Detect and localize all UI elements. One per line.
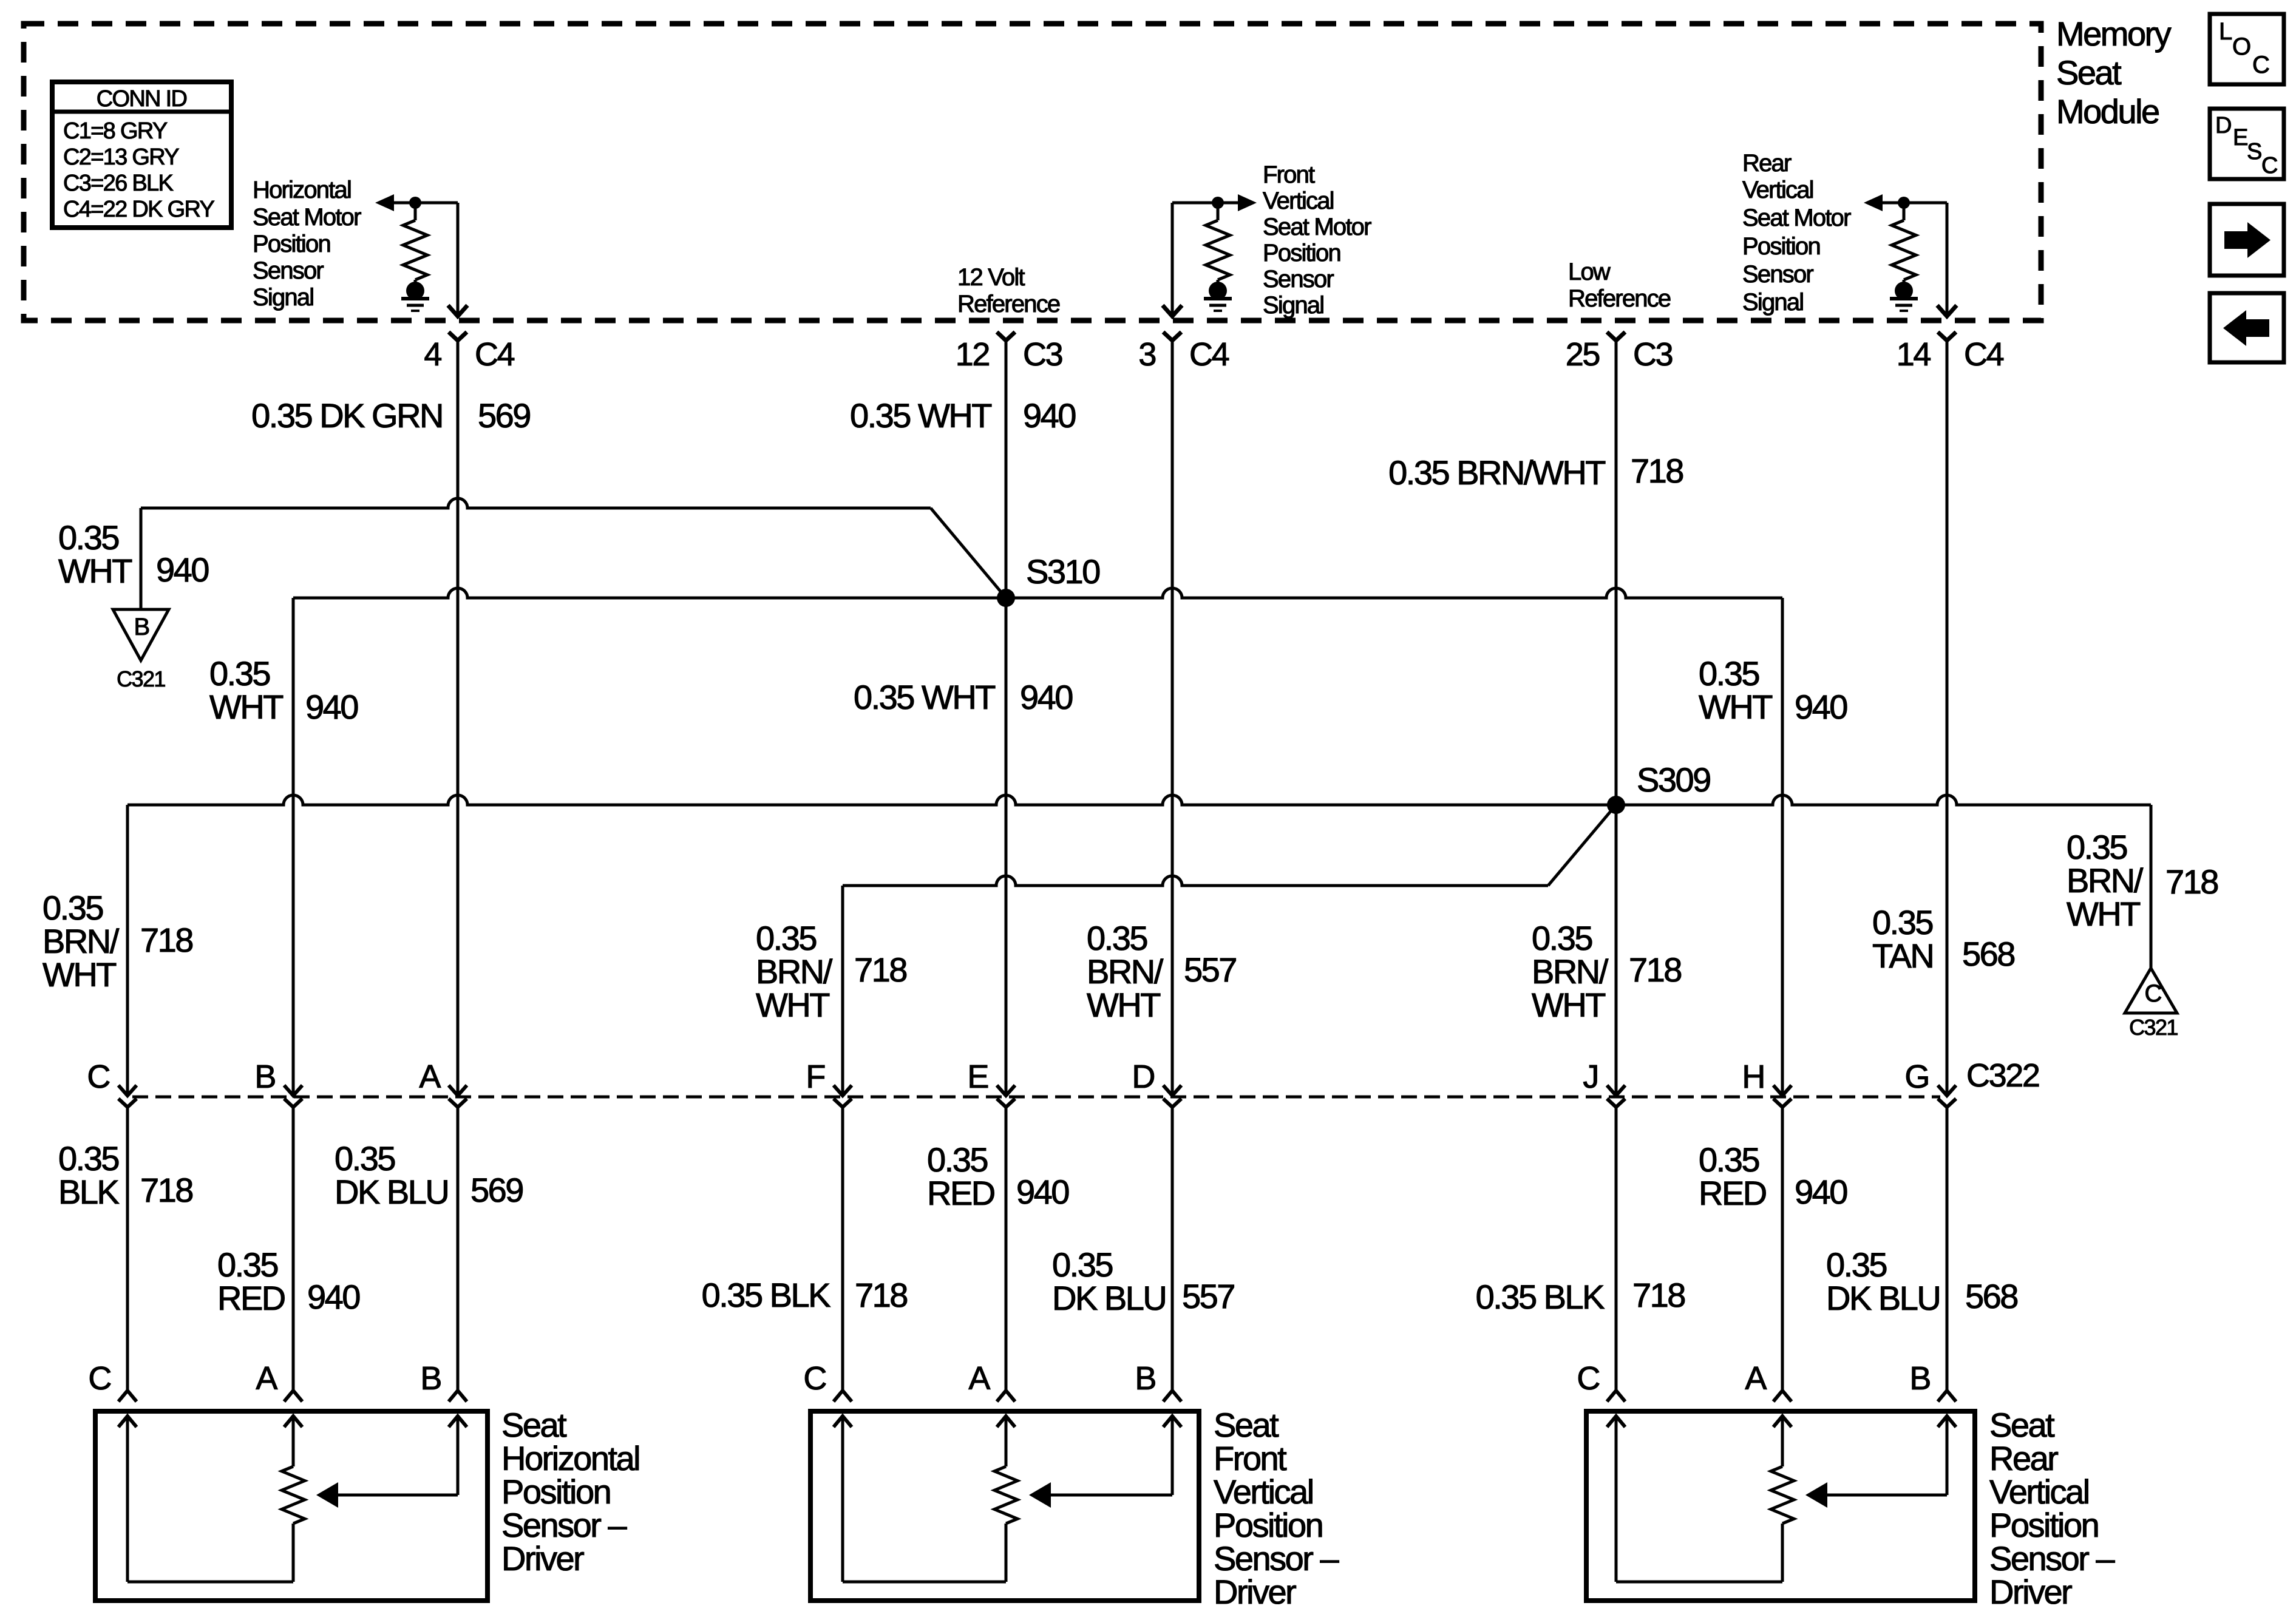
- svg-text:12 Volt: 12 Volt: [957, 264, 1025, 291]
- svg-text:A: A: [1745, 1360, 1767, 1397]
- svg-text:Module: Module: [2056, 92, 2159, 131]
- wire net WHT 940 S310 horizontal (hops over A, D, J): [293, 588, 1782, 598]
- label 0.35 DK BLU 568 on wire G below C322: [1826, 1246, 2017, 1317]
- svg-text:C: C: [2144, 980, 2161, 1007]
- svg-text:J: J: [1583, 1059, 1598, 1095]
- wire H S310-to-C322-H (WHT 940): [1781, 598, 1784, 1095]
- connector C322 pin C: [118, 1085, 137, 1096]
- label text Seat Rear Vertical Position Sensor - Driver: [1989, 1406, 2115, 1611]
- svg-text:Rear: Rear: [1989, 1439, 2058, 1477]
- wire E pin12-to-C322-E (WHT 940): [1005, 341, 1008, 1095]
- svg-text:C2=13 GRY: C2=13 GRY: [63, 144, 179, 170]
- svg-text:CONN ID: CONN ID: [97, 86, 187, 112]
- svg-text:0.35 WHT: 0.35 WHT: [854, 678, 995, 716]
- connector C322 pin J: [1607, 1085, 1625, 1096]
- horizontal seat motor position sensor signal text: [253, 177, 361, 311]
- svg-text:0.35: 0.35: [1532, 919, 1592, 957]
- pin A of Seat Horizontal Position Sensor - Driver: [284, 1391, 302, 1402]
- svg-text:BRN/: BRN/: [1087, 952, 1164, 991]
- svg-text:940: 940: [1795, 1173, 1847, 1211]
- arrow into pin C of Seat Horizontal Position Sensor - Driver: [118, 1416, 137, 1427]
- svg-text:C4: C4: [475, 336, 515, 373]
- svg-text:Seat Motor: Seat Motor: [1263, 214, 1371, 240]
- svg-text:RED: RED: [217, 1279, 285, 1317]
- svg-text:DK BLU: DK BLU: [1052, 1279, 1166, 1317]
- svg-text:Front: Front: [1214, 1439, 1287, 1477]
- svg-text:12: 12: [956, 336, 990, 373]
- svg-text:C4: C4: [1964, 336, 2004, 373]
- label 0.35 WHT 940 on C321-B stub: [58, 518, 208, 590]
- svg-text:TAN: TAN: [1872, 937, 1933, 975]
- svg-text:568: 568: [1965, 1277, 2017, 1315]
- pin 4 C4 connector: [448, 305, 467, 316]
- resistor front vertical sensor (module internal): [1217, 203, 1220, 220]
- svg-text:557: 557: [1184, 951, 1236, 989]
- wire net WHT 940 from C321-B to S310 (hop over wire A): [141, 498, 931, 508]
- svg-text:O: O: [2232, 33, 2250, 60]
- svg-text:Sensor: Sensor: [1742, 261, 1813, 288]
- svg-text:718: 718: [1632, 1276, 1685, 1314]
- label 0.35 WHT 940 on wire B: [209, 654, 358, 726]
- splice S309: [1607, 796, 1625, 814]
- svg-text:4: 4: [424, 336, 441, 373]
- pin C of Seat Rear Vertical Position Sensor - Driver: [1607, 1391, 1625, 1402]
- svg-text:WHT: WHT: [1087, 986, 1160, 1024]
- junction dot horizontal sensor: [409, 197, 421, 209]
- component box Seat Rear Vertical Position Sensor - Driver: [1586, 1411, 1975, 1601]
- svg-text:Vertical: Vertical: [1263, 188, 1334, 214]
- svg-text:D: D: [1132, 1059, 1154, 1095]
- label 0.35 WHT 940 on wire E mid: [854, 678, 1072, 716]
- connector C321-B triangle: [113, 609, 169, 660]
- previous-page arrow box: [2210, 293, 2284, 362]
- wire A pin4-to-C322-A (DK GRN 569): [457, 341, 460, 1095]
- svg-text:Vertical: Vertical: [1214, 1473, 1313, 1511]
- label 0.35 BRN/WHT 557 on wire D: [1087, 919, 1236, 1024]
- label 0.35 BLK 718 on wire J below C322: [1476, 1276, 1685, 1316]
- rear vertical seat motor position sensor signal text: [1742, 150, 1851, 316]
- svg-text:940: 940: [305, 688, 358, 726]
- pin A of Seat Front Vertical Position Sensor - Driver: [997, 1391, 1015, 1402]
- label 0.35 RED 940 on wire E below C322: [927, 1141, 1068, 1212]
- svg-text:Signal: Signal: [1742, 289, 1803, 316]
- svg-text:C321: C321: [117, 666, 165, 691]
- wire D pin3-to-C322-D (BRN/WHT 557): [1171, 341, 1174, 1095]
- svg-text:BRN/: BRN/: [42, 922, 120, 960]
- svg-text:C: C: [87, 1059, 109, 1095]
- svg-text:BRN/: BRN/: [1532, 952, 1609, 991]
- svg-text:Sensor: Sensor: [253, 257, 324, 284]
- label 0.35 BLK 718 on wire C below C322: [58, 1139, 192, 1211]
- potentiometer resistor of Seat Rear Vertical Position Sensor - Driver: [1771, 1466, 1794, 1524]
- label 0.35 BLK 718 on wire F below C322: [702, 1276, 908, 1314]
- svg-text:569: 569: [470, 1171, 523, 1209]
- svg-text:C4=22 DK GRY: C4=22 DK GRY: [63, 197, 215, 222]
- svg-text:BRN/: BRN/: [756, 952, 833, 991]
- svg-text:A: A: [419, 1059, 441, 1095]
- svg-text:718: 718: [140, 1171, 192, 1209]
- svg-text:B: B: [254, 1059, 275, 1095]
- svg-text:0.35: 0.35: [42, 889, 103, 927]
- svg-text:WHT: WHT: [58, 552, 132, 590]
- connector C321-C triangle: [2125, 968, 2177, 1013]
- svg-text:Seat: Seat: [501, 1406, 567, 1444]
- connector C322 pin B: [284, 1085, 302, 1096]
- svg-text:C: C: [803, 1360, 826, 1397]
- svg-text:Driver: Driver: [501, 1539, 584, 1578]
- svg-text:940: 940: [1016, 1173, 1068, 1211]
- junction dot rear vertical sensor: [1898, 197, 1910, 209]
- svg-text:Sensor –: Sensor –: [1989, 1539, 2115, 1578]
- svg-text:569: 569: [478, 396, 530, 435]
- connector C322 pin E: [997, 1085, 1015, 1096]
- label 0.35 WHT 940 on wire H: [1699, 654, 1847, 726]
- pin B of Seat Horizontal Position Sensor - Driver: [449, 1391, 467, 1402]
- svg-text:Reference: Reference: [957, 291, 1060, 317]
- svg-text:Horizontal: Horizontal: [501, 1439, 639, 1477]
- svg-text:0.35: 0.35: [1699, 1141, 1759, 1179]
- svg-text:S: S: [2247, 139, 2261, 164]
- connector C322 dashed line: [132, 1096, 1940, 1099]
- potentiometer wiper of Seat Rear Vertical Position Sensor - Driver: [1826, 1494, 1947, 1497]
- svg-text:25: 25: [1566, 336, 1600, 373]
- svg-text:B: B: [1909, 1360, 1930, 1397]
- arrow into pin B of Seat Front Vertical Position Sensor - Driver: [1163, 1416, 1181, 1427]
- svg-text:Driver: Driver: [1214, 1573, 1296, 1611]
- label 0.35 DK BLU 569 on wire A below C322: [335, 1139, 523, 1211]
- label 0.35 TAN 568 on wire G: [1872, 903, 2014, 975]
- wiper arrow rear vertical sensor: [1864, 194, 1883, 211]
- potentiometer wiper of Seat Horizontal Position Sensor - Driver: [337, 1494, 458, 1497]
- svg-text:Memory: Memory: [2056, 15, 2172, 53]
- wiper arrow horizontal sensor: [375, 194, 394, 211]
- svg-text:C1=8 GRY: C1=8 GRY: [63, 118, 168, 144]
- DESC hyperlink box: [2210, 109, 2284, 179]
- next-page arrow box: [2210, 204, 2284, 276]
- svg-text:Horizontal: Horizontal: [253, 177, 351, 203]
- svg-text:0.35: 0.35: [1052, 1246, 1112, 1284]
- svg-text:A: A: [968, 1360, 990, 1397]
- label 0.35 RED 940 on wire B below C322: [217, 1246, 359, 1317]
- svg-text:Sensor –: Sensor –: [1214, 1539, 1339, 1578]
- svg-text:B: B: [420, 1360, 441, 1397]
- wire stub down to C321-C: [2150, 805, 2153, 968]
- svg-text:WHT: WHT: [1532, 986, 1605, 1024]
- svg-text:Signal: Signal: [1263, 292, 1323, 319]
- ground front vertical sensor: [1209, 282, 1227, 300]
- component box Seat Horizontal Position Sensor - Driver: [95, 1411, 487, 1601]
- svg-text:RED: RED: [927, 1174, 994, 1212]
- svg-text:G: G: [1904, 1059, 1929, 1095]
- svg-text:Driver: Driver: [1989, 1573, 2072, 1611]
- svg-text:718: 718: [2165, 863, 2218, 901]
- svg-text:Rear: Rear: [1742, 150, 1792, 177]
- wire G pin14-to-C322-G (TAN 568): [1946, 341, 1949, 1095]
- svg-text:C: C: [2261, 153, 2277, 178]
- label 0.35 WHT 940 on wire E top: [850, 396, 1075, 435]
- pin C of Seat Horizontal Position Sensor - Driver: [118, 1391, 137, 1402]
- CONN ID table: [52, 82, 231, 228]
- front vertical seat motor position sensor signal text: [1263, 161, 1371, 319]
- svg-text:Position: Position: [1263, 240, 1340, 266]
- wire net BRN/WHT 718 J-line (hops over E, D) with diagonal to S309: [843, 876, 1548, 886]
- svg-text:Position: Position: [253, 231, 330, 257]
- svg-text:WHT: WHT: [2067, 895, 2140, 933]
- svg-text:Position: Position: [1742, 233, 1820, 260]
- pin 25 C3 connector: [1607, 332, 1625, 341]
- connector C322 pin F: [834, 1085, 852, 1096]
- label 0.35 BRN/WHT 718 on wire F: [756, 919, 906, 1024]
- pin 12 C3 connector: [997, 332, 1015, 341]
- module name label Memory Seat Module: [2056, 15, 2172, 131]
- svg-text:3: 3: [1138, 336, 1155, 373]
- potentiometer wiper of Seat Front Vertical Position Sensor - Driver: [1050, 1494, 1172, 1497]
- arrow into pin A of Seat Rear Vertical Position Sensor - Driver: [1773, 1416, 1792, 1427]
- arrow into pin A of Seat Horizontal Position Sensor - Driver: [284, 1416, 302, 1427]
- svg-text:WHT: WHT: [756, 986, 829, 1024]
- svg-text:H: H: [1742, 1059, 1764, 1095]
- label 0.35 RED 940 on wire H below C322: [1699, 1141, 1847, 1212]
- potentiometer resistor of Seat Front Vertical Position Sensor - Driver: [994, 1466, 1017, 1524]
- svg-text:0.35: 0.35: [1826, 1246, 1886, 1284]
- wiper arrow front vertical sensor: [1172, 202, 1238, 205]
- label 0.35 BRN/WHT 718 on C321-C stub: [2067, 828, 2218, 933]
- connector C322 pin D: [1163, 1085, 1181, 1096]
- component box Seat Front Vertical Position Sensor - Driver: [810, 1411, 1199, 1601]
- wire C S309-to-C322-C (BRN/WHT 718): [126, 805, 129, 1095]
- ground rear vertical sensor: [1895, 282, 1913, 300]
- svg-text:0.35: 0.35: [2067, 828, 2127, 866]
- svg-text:E: E: [2233, 125, 2247, 151]
- svg-text:Seat Motor: Seat Motor: [253, 204, 361, 231]
- svg-text:0.35: 0.35: [217, 1246, 277, 1284]
- svg-text:0.35: 0.35: [1699, 654, 1759, 693]
- svg-text:Seat Motor: Seat Motor: [1742, 205, 1851, 231]
- potentiometer bottom loop of Seat Horizontal Position Sensor - Driver: [292, 1524, 295, 1582]
- wire pin4 internal vertical: [457, 203, 460, 316]
- svg-text:BLK: BLK: [58, 1173, 119, 1211]
- junction dot front vertical sensor: [1212, 197, 1224, 209]
- svg-text:14: 14: [1897, 336, 1931, 373]
- svg-text:718: 718: [854, 951, 906, 989]
- svg-text:Seat: Seat: [1989, 1406, 2055, 1444]
- low reference pin text: [1568, 259, 1671, 312]
- svg-text:Signal: Signal: [253, 284, 313, 311]
- pin C of Seat Front Vertical Position Sensor - Driver: [834, 1391, 852, 1402]
- pin 14 C4 connector: [1937, 305, 1957, 316]
- pin A of Seat Rear Vertical Position Sensor - Driver: [1773, 1391, 1792, 1402]
- svg-text:C: C: [88, 1360, 110, 1397]
- svg-text:C3: C3: [1633, 336, 1673, 373]
- arrow into pin B of Seat Rear Vertical Position Sensor - Driver: [1938, 1416, 1956, 1427]
- svg-text:940: 940: [307, 1278, 359, 1316]
- arrow into pin C of Seat Front Vertical Position Sensor - Driver: [834, 1416, 852, 1427]
- svg-text:C322: C322: [1966, 1057, 2039, 1094]
- svg-text:718: 718: [855, 1276, 907, 1314]
- label 0.35 BRN/WHT 718 on wire J above C322: [1532, 919, 1681, 1024]
- svg-text:0.35 BRN/WHT: 0.35 BRN/WHT: [1388, 453, 1605, 492]
- svg-text:557: 557: [1182, 1277, 1234, 1315]
- svg-text:C4: C4: [1189, 336, 1229, 373]
- svg-text:C: C: [2252, 52, 2269, 78]
- svg-text:0.35: 0.35: [1872, 903, 1932, 941]
- svg-text:0.35 WHT: 0.35 WHT: [850, 396, 991, 435]
- potentiometer bottom loop of Seat Rear Vertical Position Sensor - Driver: [1781, 1524, 1784, 1582]
- svg-text:568: 568: [1962, 935, 2014, 973]
- svg-text:0.35: 0.35: [58, 1139, 118, 1178]
- label text Seat Horizontal Position Sensor - Driver: [501, 1406, 639, 1578]
- svg-text:D: D: [2215, 113, 2231, 138]
- svg-text:940: 940: [1020, 678, 1072, 716]
- wire F Jline-to-C322-F (BRN/WHT 718): [841, 886, 844, 1095]
- svg-text:940: 940: [156, 551, 208, 589]
- svg-text:Vertical: Vertical: [1989, 1473, 2089, 1511]
- svg-text:S309: S309: [1637, 761, 1710, 799]
- svg-text:718: 718: [1629, 951, 1681, 989]
- svg-text:0.35: 0.35: [209, 654, 270, 693]
- svg-text:0.35: 0.35: [927, 1141, 987, 1179]
- splice S310: [997, 589, 1015, 607]
- svg-text:940: 940: [1023, 396, 1075, 435]
- connector C322 pin A: [449, 1085, 467, 1096]
- connector C322 pin H: [1773, 1085, 1792, 1096]
- svg-text:Position: Position: [501, 1473, 610, 1511]
- svg-text:RED: RED: [1699, 1174, 1766, 1212]
- LOC hyperlink box: [2210, 14, 2284, 84]
- svg-text:0.35: 0.35: [1087, 919, 1147, 957]
- pin B of Seat Rear Vertical Position Sensor - Driver: [1938, 1391, 1956, 1402]
- arrow into pin B of Seat Horizontal Position Sensor - Driver: [449, 1416, 467, 1427]
- label 0.35 DK BLU 557 on wire D below C322: [1052, 1246, 1234, 1317]
- arrow into pin A of Seat Front Vertical Position Sensor - Driver: [997, 1416, 1015, 1427]
- svg-text:WHT: WHT: [42, 955, 116, 994]
- svg-text:C: C: [1577, 1360, 1599, 1397]
- svg-text:E: E: [967, 1059, 988, 1095]
- wire B S310-to-C322-B (WHT 940): [292, 598, 295, 1095]
- pin 3 C4 connector: [1163, 305, 1182, 316]
- svg-text:B: B: [134, 614, 149, 640]
- label 0.35 BRN/WHT 718 on wire C: [42, 889, 192, 994]
- pin B of Seat Front Vertical Position Sensor - Driver: [1163, 1391, 1181, 1402]
- svg-text:0.35 BLK: 0.35 BLK: [1476, 1278, 1605, 1316]
- svg-text:C3=26 BLK: C3=26 BLK: [63, 171, 173, 196]
- svg-text:Position: Position: [1989, 1506, 2098, 1544]
- 12 volt reference pin text: [957, 264, 1060, 317]
- svg-text:Position: Position: [1214, 1506, 1322, 1544]
- arrow into pin C of Seat Rear Vertical Position Sensor - Driver: [1607, 1416, 1625, 1427]
- module Memory Seat Module boundary (dashed): [24, 24, 2041, 320]
- svg-text:718: 718: [140, 921, 192, 959]
- svg-text:WHT: WHT: [1699, 688, 1772, 726]
- svg-text:0.35 DK GRN: 0.35 DK GRN: [251, 396, 443, 435]
- wire pin14 internal vertical: [1946, 203, 1949, 316]
- wire stub down to C321-B: [140, 508, 143, 609]
- svg-text:0.35: 0.35: [58, 518, 118, 557]
- label text Seat Front Vertical Position Sensor - Driver: [1214, 1406, 1339, 1611]
- svg-text:Low: Low: [1568, 259, 1611, 285]
- svg-text:Reference: Reference: [1568, 285, 1671, 312]
- svg-text:B: B: [1135, 1360, 1155, 1397]
- svg-text:BRN/: BRN/: [2067, 861, 2144, 900]
- svg-text:A: A: [256, 1360, 277, 1397]
- connector C322 pin G: [1938, 1085, 1956, 1096]
- ground horizontal sensor: [406, 282, 424, 300]
- svg-text:Front: Front: [1263, 161, 1315, 188]
- label 0.35 DK GRN 569 on wire A: [251, 396, 530, 435]
- svg-text:L: L: [2219, 18, 2232, 45]
- svg-text:Seat: Seat: [1214, 1406, 1279, 1444]
- svg-text:0.35: 0.35: [335, 1139, 395, 1178]
- svg-text:S310: S310: [1026, 552, 1099, 591]
- resistor horizontal position sensor (module internal): [414, 203, 417, 220]
- svg-text:0.35: 0.35: [756, 919, 816, 957]
- potentiometer resistor of Seat Horizontal Position Sensor - Driver: [282, 1466, 305, 1524]
- svg-text:940: 940: [1795, 688, 1847, 726]
- wire J pin25-to-C322-J (BRN/WHT 718): [1615, 341, 1618, 1095]
- svg-text:Sensor –: Sensor –: [501, 1506, 627, 1544]
- svg-text:Sensor: Sensor: [1263, 266, 1334, 293]
- svg-text:C321: C321: [2129, 1015, 2178, 1040]
- svg-text:Seat: Seat: [2056, 53, 2122, 92]
- svg-text:F: F: [806, 1059, 824, 1095]
- wire pin3 internal vertical: [1171, 203, 1174, 316]
- label 0.35 BRN/WHT 718 on wire J top: [1388, 452, 1683, 492]
- svg-text:WHT: WHT: [209, 688, 283, 726]
- svg-text:DK BLU: DK BLU: [335, 1173, 448, 1211]
- svg-text:0.35 BLK: 0.35 BLK: [702, 1276, 831, 1314]
- svg-text:DK BLU: DK BLU: [1826, 1279, 1940, 1317]
- svg-text:Vertical: Vertical: [1742, 177, 1813, 203]
- svg-text:718: 718: [1631, 452, 1683, 490]
- wire net WHT 940 S309 horizontal (hops over B, A, E, D, H, G): [127, 795, 2151, 805]
- svg-text:C3: C3: [1023, 336, 1062, 373]
- resistor rear vertical sensor (module internal): [1903, 203, 1906, 220]
- potentiometer bottom loop of Seat Front Vertical Position Sensor - Driver: [1005, 1524, 1008, 1582]
